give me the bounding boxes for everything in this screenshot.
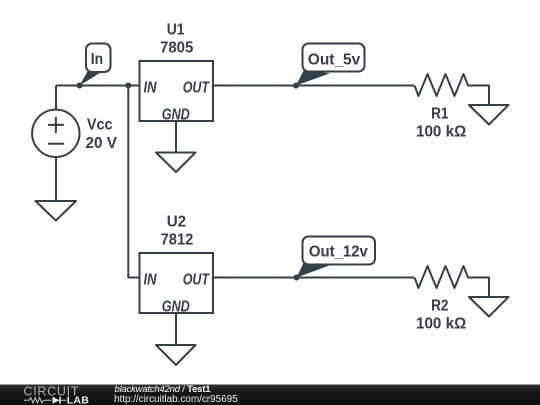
svg-text:R2: R2 — [431, 297, 448, 314]
svg-text:LAB: LAB — [67, 394, 90, 405]
svg-text:In: In — [91, 50, 103, 68]
svg-text:100 kΩ: 100 kΩ — [416, 123, 466, 140]
svg-text:100 kΩ: 100 kΩ — [416, 315, 466, 332]
svg-text:U2: U2 — [167, 213, 187, 230]
svg-text:Out_5v: Out_5v — [308, 51, 361, 68]
svg-text:7812: 7812 — [161, 231, 194, 249]
svg-text:GND: GND — [162, 106, 190, 124]
svg-text:U1: U1 — [167, 21, 185, 39]
svg-text:OUT: OUT — [183, 79, 210, 97]
svg-text:IN: IN — [144, 271, 157, 289]
svg-text:R1: R1 — [431, 105, 448, 122]
svg-text:7805: 7805 — [160, 39, 194, 57]
svg-text:GND: GND — [162, 298, 190, 316]
svg-text:http://circuitlab.com/cr95695: http://circuitlab.com/cr95695 — [114, 394, 238, 405]
svg-text:20 V: 20 V — [86, 135, 118, 152]
svg-text:Vcc: Vcc — [87, 116, 113, 134]
svg-text:IN: IN — [144, 79, 157, 97]
svg-text:OUT: OUT — [183, 271, 210, 289]
svg-text:Out_12v: Out_12v — [309, 243, 368, 261]
